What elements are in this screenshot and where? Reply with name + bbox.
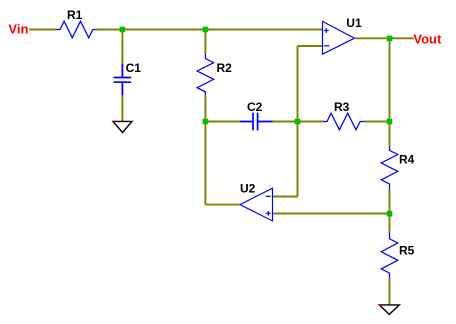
- svg-text:C1: C1: [126, 61, 142, 75]
- node B junction: [203, 27, 209, 33]
- wire R2 to node C: [204, 95, 206, 121]
- svg-text:U2: U2: [240, 181, 256, 195]
- wire R3 to node E: [364, 121, 389, 123]
- resistor R5: [381, 233, 414, 278]
- wire node F down to node E: [389, 38, 391, 121]
- svg-text:R4: R4: [399, 153, 415, 167]
- wire node A to node B: [122, 29, 205, 31]
- wire U1 output to node F: [354, 37, 389, 39]
- svg-text:R2: R2: [217, 61, 233, 75]
- resistor R3: [324, 100, 365, 130]
- op-amp U1: [323, 16, 362, 54]
- resistor R4: [381, 146, 414, 190]
- wire node D to R3: [298, 121, 324, 123]
- wire R5 to ground: [389, 277, 391, 305]
- node D junction: [295, 119, 301, 125]
- wire Vin to R1: [29, 29, 57, 31]
- wire node A down to C1: [121, 30, 123, 65]
- wire node D down to U2 minus: [297, 122, 299, 197]
- wire U2 output horizontal: [205, 204, 240, 206]
- wire node E down to R4: [389, 122, 391, 147]
- capacitor C2: [240, 100, 273, 131]
- svg-text:C2: C2: [247, 100, 263, 114]
- wire R1 to node A: [97, 29, 123, 31]
- wire U2 minus horizontal: [273, 196, 298, 198]
- node A junction: [120, 27, 126, 33]
- wire node B to U1 plus input: [205, 29, 322, 31]
- resistor R2: [197, 54, 232, 96]
- ground: [112, 121, 132, 133]
- wire U1 minus down to node D: [297, 46, 299, 122]
- wire node C to C2: [205, 121, 240, 123]
- resistor R1: [56, 8, 97, 38]
- svg-text:Vin: Vin: [8, 22, 28, 37]
- node G junction: [387, 211, 393, 217]
- wire U1 minus input horizontal: [298, 45, 323, 47]
- wire C2 to node D: [272, 121, 297, 123]
- ground: [379, 304, 400, 314]
- wire U2 plus input to node G: [273, 213, 390, 215]
- node E junction: [387, 119, 393, 125]
- wire node G down to R5: [389, 214, 391, 233]
- wire node C down to U2 output: [204, 122, 206, 205]
- wire node F to Vout: [390, 37, 414, 39]
- wire R4 to node G: [389, 190, 391, 214]
- wire node B down to R2: [204, 30, 206, 54]
- node Vout label: [413, 32, 442, 47]
- wire C1 to ground: [121, 95, 123, 121]
- node C junction: [203, 119, 209, 125]
- node F junction: [387, 36, 393, 42]
- node Vin label: [8, 22, 28, 37]
- op-amp U2: [240, 181, 273, 221]
- svg-text:R3: R3: [334, 100, 350, 114]
- capacitor C1: [114, 61, 142, 96]
- svg-text:Vout: Vout: [413, 32, 442, 47]
- svg-text:R5: R5: [399, 243, 415, 257]
- svg-text:U1: U1: [346, 16, 362, 30]
- svg-text:R1: R1: [67, 8, 83, 22]
